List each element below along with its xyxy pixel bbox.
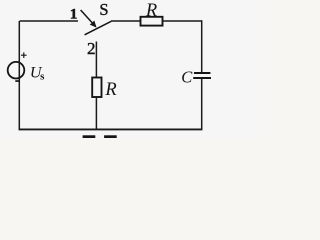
polarity minus [15,80,20,82]
caption mark left (cropped character top) [83,135,96,138]
resistor R (middle) body [92,78,101,98]
svg-text:R: R [104,80,116,100]
svg-text:C: C [181,67,193,86]
wire: switch contact 2 stub [95,42,97,78]
voltage source Us circle [8,62,25,79]
svg-text:2: 2 [87,39,96,58]
wire: bottom [19,128,203,130]
wire: right branch lower [201,79,203,130]
svg-text:R: R [145,1,157,21]
resistor R (top) body [141,17,163,26]
wire: right branch upper [201,20,203,72]
wire: top-left from source to switch contact 1 [20,20,79,22]
wire: middle branch lower [95,97,97,130]
capacitor C plates [193,73,211,78]
switch S: movement arrow [81,10,96,27]
wire: switch to resistor R top [111,20,140,22]
polarity plus [21,52,27,58]
svg-text:S: S [99,0,108,19]
switch S: blade [85,21,112,35]
svg-text:1: 1 [70,7,78,23]
wire: resistor to top-right corner [163,20,202,22]
caption mark right (cropped character top) [104,135,117,138]
wire: left branch vertical through source [18,21,20,130]
svg-text:s: s [40,70,45,82]
